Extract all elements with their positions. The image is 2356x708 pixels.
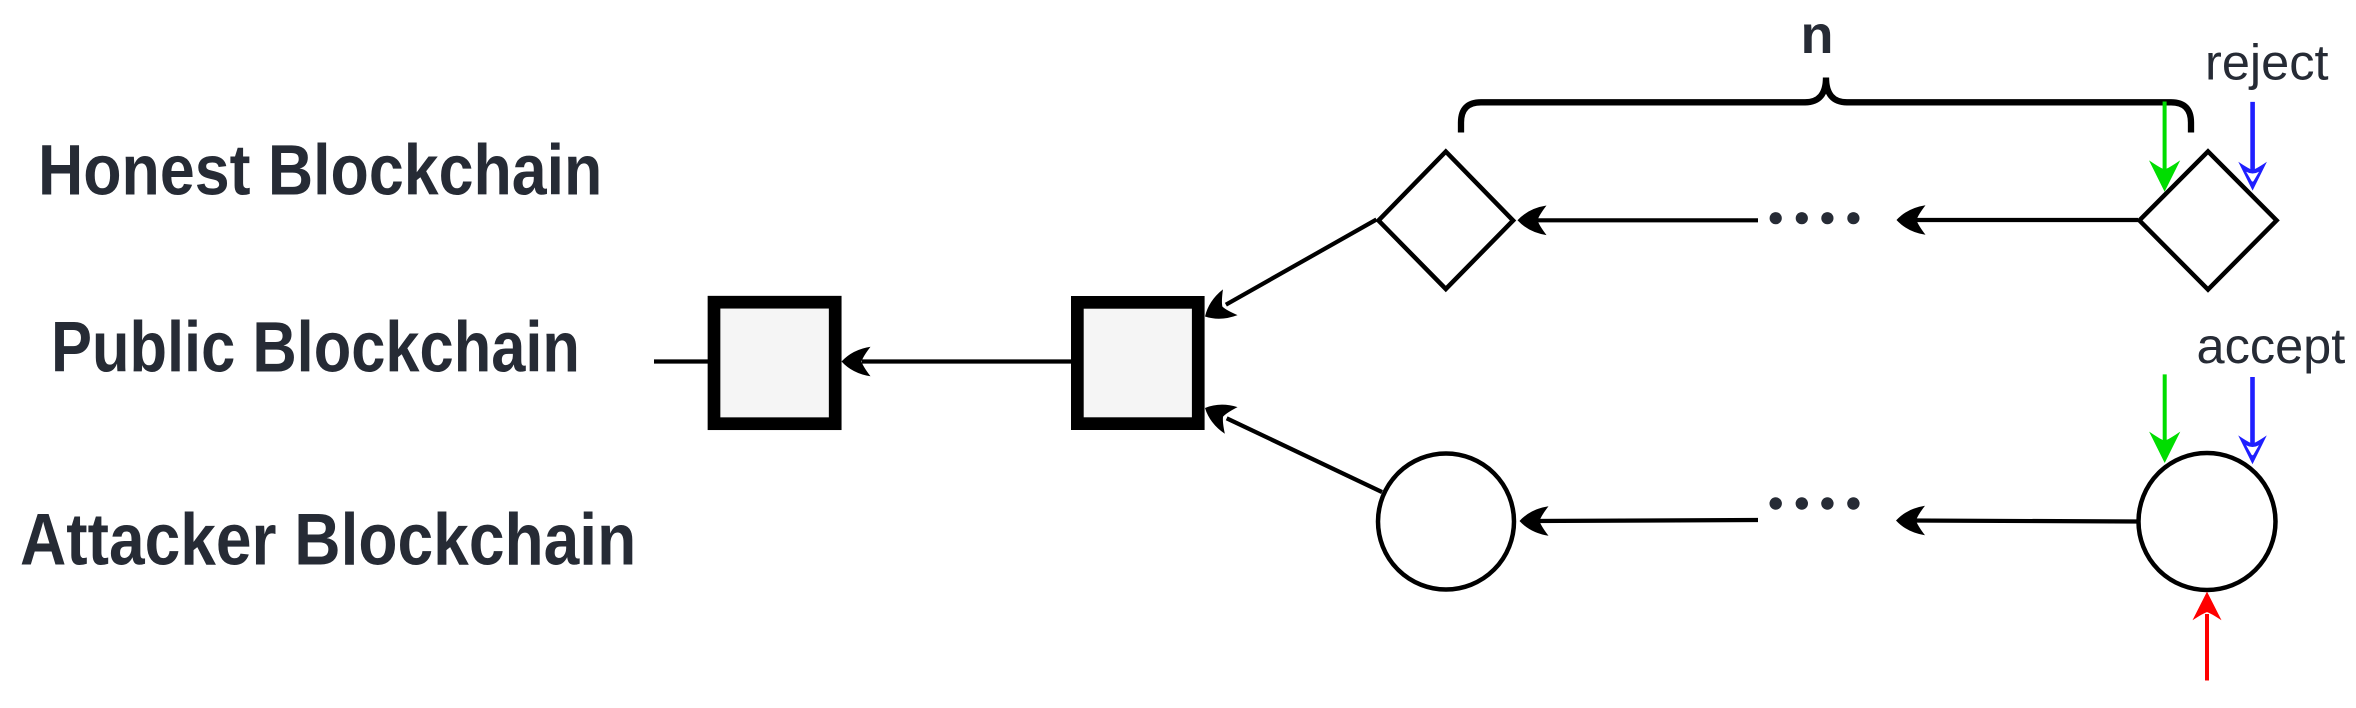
arrow: green confirm -> D2 xyxy=(2150,102,2179,191)
svg-text:n: n xyxy=(1801,5,1834,65)
dots: honest chain ellipsis xyxy=(1770,212,1860,224)
block: public genesis block B1 xyxy=(714,302,835,424)
svg-text:accept: accept xyxy=(2197,317,2346,374)
row label: Public Blockchain xyxy=(51,308,580,387)
block: public block B2 xyxy=(1077,302,1198,423)
wire: arrow honest D1 -> B2 (diagonal) xyxy=(1198,207,1384,330)
svg-text:Public Blockchain: Public Blockchain xyxy=(51,308,580,387)
brace: n blocks span xyxy=(1461,78,2191,133)
wire: arrow (dots) -> C1 xyxy=(1532,520,1758,521)
svg-text:Attacker Blockchain: Attacker Blockchain xyxy=(20,499,636,581)
node: attacker circle C2 (head of attacker chain) xyxy=(2139,453,2276,590)
node: attacker circle C1 xyxy=(1378,454,1514,590)
svg-text:Honest Blockchain: Honest Blockchain xyxy=(38,131,602,211)
dots: attacker chain ellipsis xyxy=(1770,497,1860,509)
wire: arrow attacker C1 -> B2 (diagonal) xyxy=(1199,395,1389,506)
wire: stub left of genesis block xyxy=(654,359,709,363)
arrow: red attacker mining -> C2 (from below) xyxy=(2193,592,2222,681)
wire: arrow B2 -> B1 xyxy=(862,359,1071,363)
row label: Honest Blockchain xyxy=(38,131,602,211)
row label: Attacker Blockchain xyxy=(20,499,636,581)
wire: arrow (dots) -> D1 xyxy=(1530,218,1758,222)
svg-text:reject: reject xyxy=(2205,34,2329,91)
arrow: green confirm -> C2 xyxy=(2150,374,2179,462)
arrow: blue accept -> C2 xyxy=(2238,377,2267,464)
wire: arrow C2 -> (dots) xyxy=(1909,521,2138,522)
node: honest diamond D1 xyxy=(1379,152,1514,289)
node: honest diamond D2 (head of honest chain) xyxy=(2139,151,2276,289)
arrow: blue reject -> D2 xyxy=(2238,102,2267,191)
wire: arrow D2 -> (dots) xyxy=(1910,218,2138,222)
